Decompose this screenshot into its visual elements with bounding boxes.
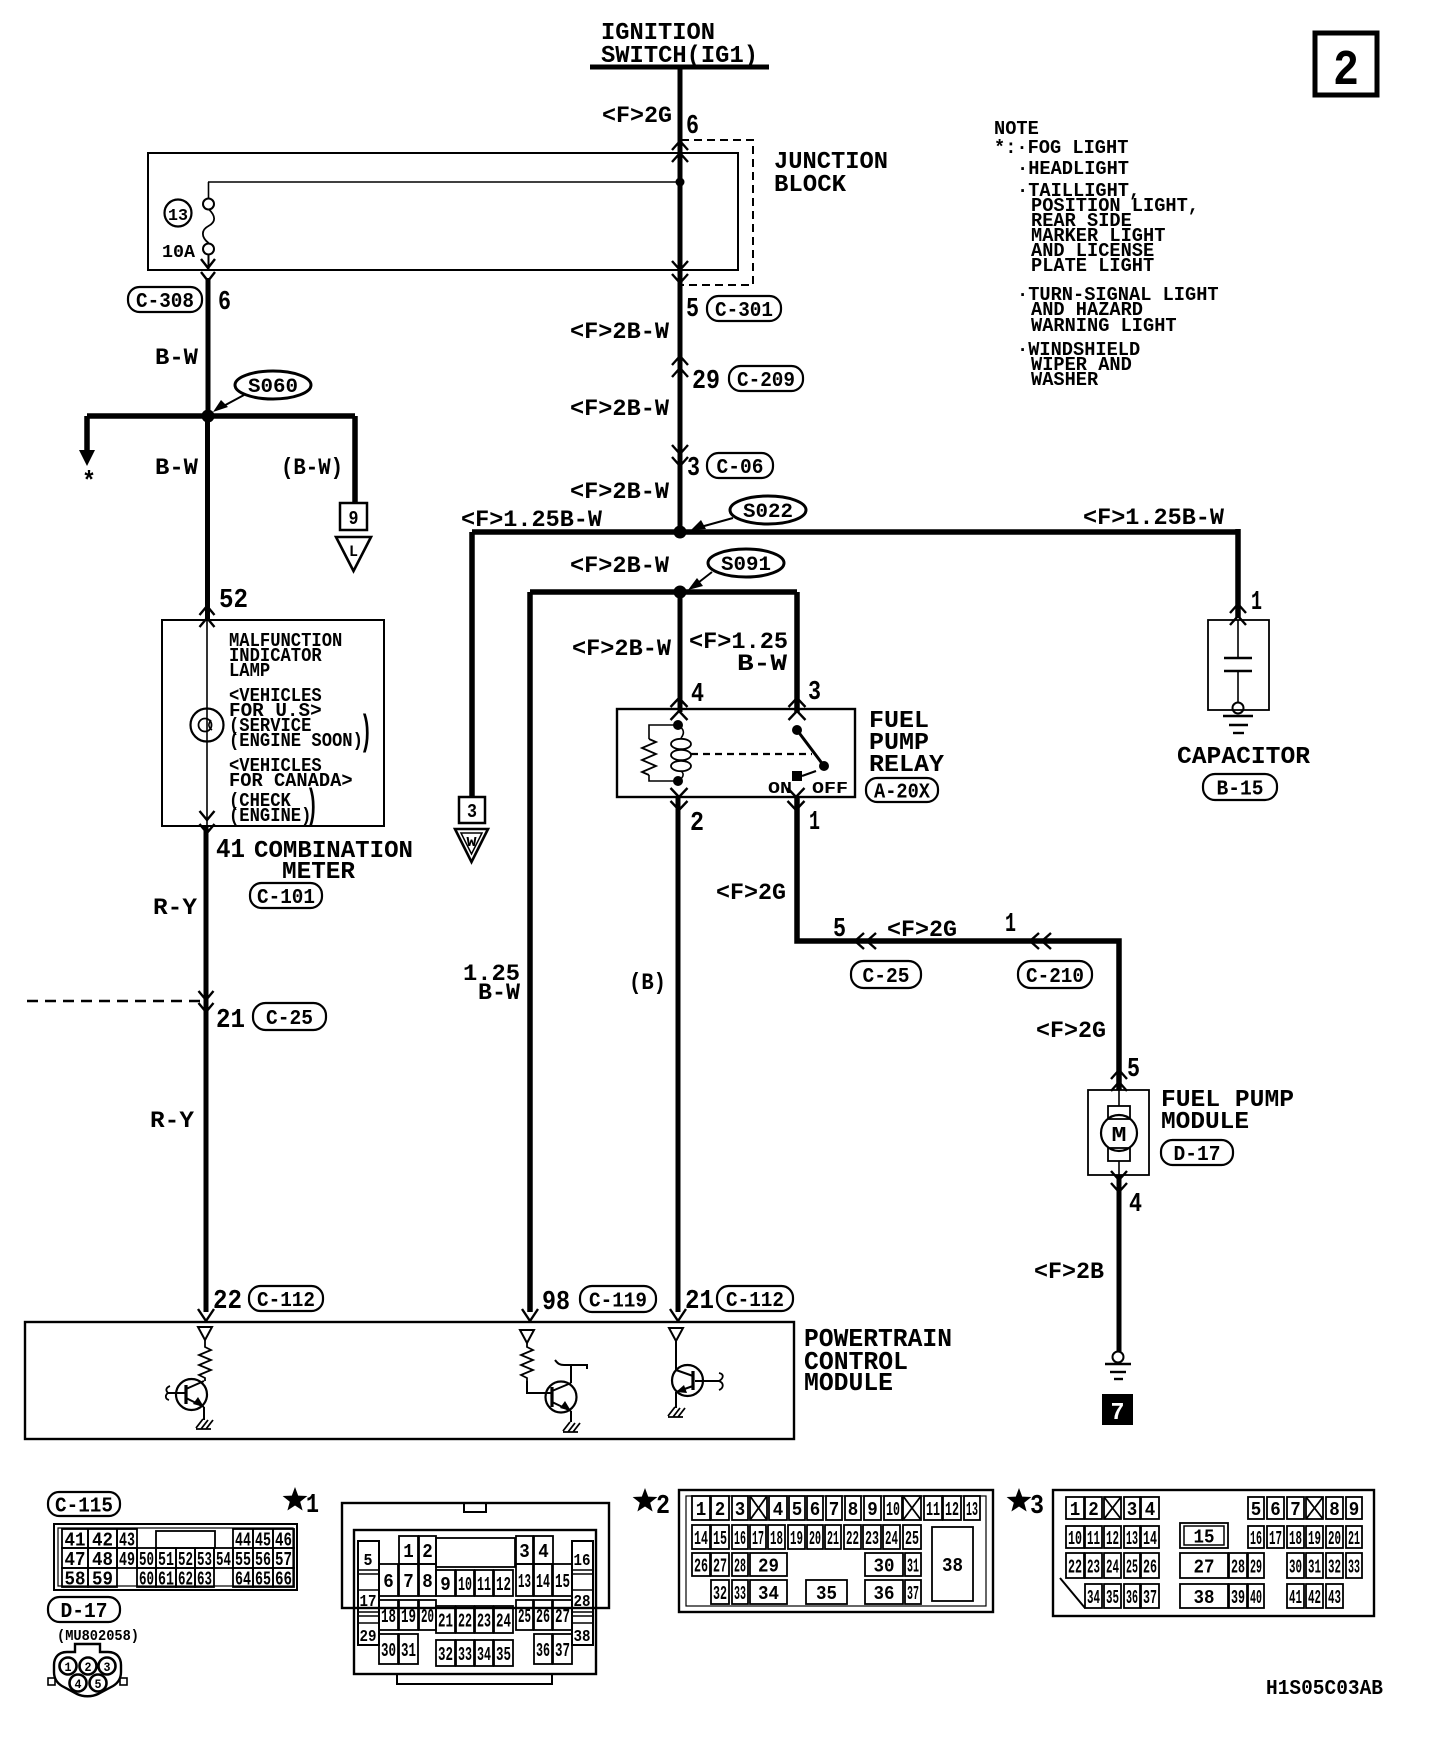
svg-text:59: 59 — [92, 1568, 113, 1590]
svg-text:3: 3 — [735, 1499, 746, 1521]
wire ignition to junction block — [678, 67, 683, 141]
svg-text:30: 30 — [1289, 1556, 1302, 1578]
svg-text:36: 36 — [1126, 1587, 1138, 1609]
fuse 13 circle label — [165, 200, 192, 227]
svg-text:31: 31 — [907, 1555, 919, 1577]
fuel pump relay box — [617, 709, 855, 797]
relay pin1 chevrons — [788, 788, 805, 810]
svg-text:98: 98 — [542, 1288, 570, 1318]
svg-text:16: 16 — [1250, 1528, 1262, 1550]
relay actuation dashed link — [691, 753, 812, 755]
capacitor box — [1208, 620, 1269, 710]
svg-text:10: 10 — [458, 1574, 472, 1596]
svg-text:1: 1 — [403, 1541, 414, 1563]
svg-text:43: 43 — [1328, 1587, 1341, 1609]
svg-text:16: 16 — [574, 1552, 591, 1571]
wire 2 pcm entry — [676, 797, 681, 1312]
connector label D-17 pill — [48, 1597, 120, 1622]
svg-text:24: 24 — [1106, 1556, 1119, 1578]
svg-text:1: 1 — [1070, 1499, 1081, 1521]
svg-text:21: 21 — [438, 1610, 453, 1632]
svg-text:9: 9 — [1349, 1499, 1360, 1521]
page number box 2 — [1315, 33, 1377, 95]
junction block solid box — [148, 153, 738, 270]
splice S060 label — [235, 371, 311, 399]
svg-text:24: 24 — [496, 1610, 511, 1632]
svg-text:22: 22 — [1068, 1556, 1082, 1578]
connector label D-17 — [1161, 1140, 1233, 1165]
svg-text:8: 8 — [422, 1571, 433, 1593]
svg-text:38: 38 — [574, 1628, 591, 1647]
powertrain control module box — [25, 1322, 794, 1439]
svg-text:17: 17 — [360, 1593, 377, 1612]
svg-text:41: 41 — [216, 836, 245, 866]
svg-text:): ) — [360, 709, 372, 757]
svg-text:30: 30 — [381, 1640, 396, 1662]
page reference box 9 — [340, 503, 367, 530]
svg-text:*:·FOG LIGHT: *:·FOG LIGHT — [994, 137, 1128, 159]
relay shunt resistor — [649, 725, 678, 739]
capacitor element — [1237, 620, 1239, 658]
svg-text:31: 31 — [1308, 1556, 1321, 1578]
svg-text:5: 5 — [364, 1552, 373, 1571]
svg-text:40: 40 — [1250, 1587, 1262, 1609]
svg-text:(MU802058): (MU802058) — [57, 1628, 139, 1645]
svg-text:1: 1 — [306, 1491, 319, 1521]
connector label C-115 pill — [48, 1492, 120, 1516]
svg-text:<F>2B-W: <F>2B-W — [570, 319, 669, 345]
svg-text:13: 13 — [1126, 1528, 1138, 1550]
connector label C-301 — [707, 296, 781, 321]
fuel pump module box — [1088, 1090, 1149, 1175]
svg-text:7: 7 — [403, 1571, 414, 1593]
svg-text:10A: 10A — [162, 243, 195, 263]
relay pin4 chevrons — [671, 698, 688, 720]
svg-text:15: 15 — [713, 1528, 727, 1550]
svg-text:19: 19 — [790, 1528, 803, 1550]
capacitor ground — [1233, 703, 1244, 714]
connector label C-119 — [580, 1286, 656, 1312]
svg-text:B-W: B-W — [155, 345, 198, 371]
relay switch pivot — [792, 725, 802, 735]
svg-text:3: 3 — [687, 454, 700, 484]
connector C-210 chevrons — [1030, 933, 1051, 949]
svg-text:65: 65 — [255, 1568, 271, 1590]
svg-text:11: 11 — [1087, 1528, 1100, 1550]
svg-text:C-101: C-101 — [257, 887, 315, 910]
connector label C-101 — [250, 883, 322, 908]
svg-text:2: 2 — [690, 809, 704, 839]
svg-text:8: 8 — [1329, 1499, 1340, 1521]
svg-text:B-15: B-15 — [1217, 779, 1264, 802]
svg-text:5: 5 — [1127, 1055, 1140, 1085]
star2 connector outline — [679, 1490, 993, 1612]
svg-text:21: 21 — [827, 1528, 839, 1550]
svg-text:R-Y: R-Y — [150, 1108, 194, 1134]
svg-text:7: 7 — [829, 1499, 840, 1521]
svg-text:M: M — [1112, 1125, 1127, 1148]
splice S091 arrow — [694, 572, 712, 586]
svg-text:S091: S091 — [721, 554, 771, 577]
svg-text:36: 36 — [874, 1583, 895, 1605]
svg-text:25: 25 — [518, 1606, 531, 1628]
star 2 marker — [633, 1488, 658, 1512]
relay switch off dash — [802, 771, 816, 776]
svg-text:33: 33 — [458, 1644, 472, 1666]
svg-text:21: 21 — [216, 1006, 245, 1036]
star 1 marker — [283, 1487, 308, 1511]
svg-text:28: 28 — [1231, 1556, 1245, 1578]
svg-text:6: 6 — [810, 1499, 821, 1521]
svg-text:25: 25 — [905, 1528, 919, 1550]
fuel pump motor — [1118, 1090, 1120, 1106]
svg-text:D-17: D-17 — [61, 1601, 108, 1624]
svg-text:18: 18 — [1289, 1528, 1302, 1550]
svg-text:64: 64 — [235, 1568, 251, 1590]
svg-text:<F>1.25B-W: <F>1.25B-W — [461, 507, 602, 533]
svg-text:C-112: C-112 — [257, 1290, 315, 1313]
svg-text:(ENGINE SOON): (ENGINE SOON) — [229, 730, 363, 752]
svg-text:24: 24 — [885, 1528, 898, 1550]
connector label C-209 — [729, 366, 803, 391]
malfunction indicator lamp box — [162, 620, 384, 826]
wire 2B fuel pump to ground — [1117, 1175, 1122, 1352]
svg-text:B-W: B-W — [478, 980, 520, 1006]
svg-text:3: 3 — [467, 801, 477, 823]
svg-text:35: 35 — [1106, 1587, 1119, 1609]
relay switch arm end — [819, 761, 829, 771]
svg-text:C-25: C-25 — [266, 1008, 313, 1031]
svg-text:5: 5 — [1251, 1499, 1262, 1521]
svg-text:14: 14 — [1143, 1528, 1157, 1550]
svg-text:13: 13 — [168, 207, 188, 226]
wire 2G relay pin1 to fuel pump — [797, 797, 1119, 1090]
fuel pump pin4 chevrons — [1111, 1171, 1127, 1192]
svg-text:L: L — [349, 543, 358, 561]
svg-text:34: 34 — [477, 1644, 491, 1666]
svg-text:WARNING LIGHT: WARNING LIGHT — [1031, 315, 1177, 337]
wire S060 horizontal — [87, 413, 355, 419]
svg-text:9: 9 — [349, 508, 359, 530]
connector crossing chevrons jb top — [672, 141, 688, 162]
svg-text:2: 2 — [422, 1541, 433, 1563]
junction block dashed extension — [681, 140, 753, 285]
connector label C-25 left — [253, 1003, 326, 1030]
connector C-06 chevrons — [672, 445, 688, 466]
connector C-115 cells — [62, 1529, 88, 1548]
connector label C-308 — [128, 287, 202, 312]
svg-text:3: 3 — [1127, 1499, 1138, 1521]
svg-text:OFF: OFF — [812, 780, 848, 799]
svg-text:5: 5 — [792, 1499, 803, 1521]
connector C-25 left chevrons — [199, 991, 214, 1012]
svg-text:29: 29 — [360, 1628, 377, 1647]
fuse output chevrons — [201, 259, 215, 281]
svg-text:7: 7 — [1111, 1400, 1125, 1427]
svg-text:2: 2 — [1088, 1499, 1099, 1521]
svg-text:4: 4 — [75, 1677, 82, 1692]
junction block inner bus wire — [208, 181, 680, 183]
svg-text:63: 63 — [197, 1568, 212, 1590]
svg-text:(ENGINE): (ENGINE) — [229, 805, 311, 827]
connector C-115 outline — [54, 1524, 297, 1590]
connector label B-15 — [1203, 774, 1277, 800]
svg-text:21: 21 — [1348, 1528, 1360, 1550]
svg-text:32: 32 — [713, 1583, 727, 1605]
svg-text:26: 26 — [536, 1606, 550, 1628]
svg-text:9: 9 — [440, 1574, 451, 1596]
ground triangle W — [455, 829, 488, 862]
svg-text:27: 27 — [1194, 1556, 1215, 1578]
pcm driver transistor Q2 — [520, 1330, 534, 1343]
svg-text:4: 4 — [691, 680, 704, 710]
wire R-Y meter to C-25 — [204, 826, 209, 1312]
svg-text:PLATE LIGHT: PLATE LIGHT — [1031, 255, 1154, 277]
connector label C-210 — [1018, 961, 1092, 988]
svg-text:26: 26 — [694, 1555, 708, 1577]
star 3 marker — [1007, 1488, 1032, 1512]
svg-text:37: 37 — [907, 1583, 919, 1605]
svg-text:9: 9 — [867, 1499, 878, 1521]
pcm entry fork 98 — [522, 1309, 538, 1321]
pcm entry fork 21 — [670, 1309, 686, 1321]
svg-text:C-308: C-308 — [136, 291, 194, 314]
svg-text:16: 16 — [734, 1528, 746, 1550]
svg-text:37: 37 — [1143, 1587, 1157, 1609]
svg-text:54: 54 — [216, 1549, 231, 1571]
splice S022 arrow — [697, 518, 733, 528]
relay coil — [678, 725, 683, 738]
svg-text:33: 33 — [734, 1583, 746, 1605]
svg-text:S060: S060 — [248, 376, 298, 399]
svg-text:17: 17 — [752, 1528, 764, 1550]
svg-text:27: 27 — [555, 1606, 570, 1628]
svg-text:BLOCK: BLOCK — [774, 172, 847, 199]
svg-text:3: 3 — [808, 678, 821, 708]
svg-text:5: 5 — [833, 915, 846, 945]
relay coil bottom node — [673, 776, 683, 786]
svg-text:12: 12 — [496, 1574, 511, 1596]
svg-text:3: 3 — [519, 1541, 530, 1563]
svg-text:2: 2 — [656, 1492, 670, 1522]
wire 1.25B-W splice S091 horizontal — [530, 589, 797, 595]
svg-text:<F>2G: <F>2G — [887, 917, 957, 943]
svg-text:66: 66 — [275, 1568, 292, 1590]
svg-text:H1S05C03AB: H1S05C03AB — [1266, 1678, 1383, 1701]
svg-text:4: 4 — [773, 1499, 784, 1521]
svg-text:D-17: D-17 — [1174, 1144, 1221, 1167]
ignition switch bus bar — [590, 65, 769, 70]
body ground symbol — [1113, 1352, 1124, 1363]
svg-text:19: 19 — [401, 1606, 416, 1628]
wire 1.25B-W splice S022 horizontal — [472, 529, 1238, 535]
svg-text:13: 13 — [966, 1499, 978, 1521]
svg-text:29: 29 — [758, 1555, 779, 1577]
connector C-25 chevrons — [855, 933, 876, 949]
star3 connector cells — [1066, 1497, 1084, 1519]
svg-text:12: 12 — [945, 1499, 959, 1521]
wire B-W S060 to MIL — [205, 416, 210, 620]
svg-text:39: 39 — [1231, 1587, 1245, 1609]
svg-text:28: 28 — [574, 1593, 591, 1612]
svg-text:2: 2 — [1333, 43, 1359, 100]
svg-text:20: 20 — [809, 1528, 821, 1550]
svg-text:CAPACITOR: CAPACITOR — [1177, 744, 1311, 771]
wire through junction block — [678, 141, 683, 285]
svg-text:W: W — [467, 835, 478, 851]
svg-text:38: 38 — [942, 1555, 963, 1577]
relay pin2 chevrons — [671, 788, 688, 810]
svg-text:35: 35 — [496, 1644, 511, 1666]
relay switch arm — [797, 730, 824, 766]
star2 connector cells — [692, 1496, 710, 1520]
svg-text:38: 38 — [1194, 1587, 1215, 1609]
node splice S060 — [202, 410, 215, 423]
svg-text:11: 11 — [477, 1574, 491, 1596]
wire 1.25B-W to PCM 98 — [527, 592, 533, 1312]
svg-text:29: 29 — [1250, 1556, 1262, 1578]
svg-text:35: 35 — [816, 1583, 837, 1605]
relay pin1 square contact — [792, 771, 802, 781]
svg-text:<F>2B-W: <F>2B-W — [570, 396, 669, 422]
node junction block bus — [676, 178, 685, 187]
svg-text:21: 21 — [685, 1287, 714, 1317]
svg-text:20: 20 — [421, 1606, 434, 1628]
svg-text:B-W: B-W — [737, 651, 787, 677]
star1 left ear — [358, 1541, 379, 1645]
svg-text:23: 23 — [477, 1610, 491, 1632]
svg-text:15: 15 — [555, 1571, 570, 1593]
svg-text:(B): (B) — [629, 970, 666, 996]
node splice S091 — [674, 586, 687, 599]
svg-text:31: 31 — [401, 1640, 416, 1662]
connector label A-20X — [866, 778, 938, 802]
svg-text:32: 32 — [438, 1644, 453, 1666]
mil internal wire — [206, 620, 208, 826]
svg-text:20: 20 — [1328, 1528, 1341, 1550]
svg-text:4: 4 — [1129, 1190, 1142, 1220]
svg-text:14: 14 — [536, 1571, 550, 1593]
svg-text:<F>2B: <F>2B — [1034, 1259, 1104, 1285]
svg-text:13: 13 — [518, 1571, 531, 1593]
svg-text:MODULE: MODULE — [1161, 1109, 1249, 1136]
svg-text:34: 34 — [1087, 1587, 1100, 1609]
svg-text:1: 1 — [696, 1499, 707, 1521]
svg-text:12: 12 — [1106, 1528, 1119, 1550]
svg-text:S022: S022 — [743, 501, 793, 524]
svg-text:11: 11 — [926, 1499, 940, 1521]
svg-text:LAMP: LAMP — [229, 660, 270, 682]
svg-text:22: 22 — [213, 1287, 242, 1317]
svg-text:37: 37 — [555, 1640, 570, 1662]
svg-text:18: 18 — [381, 1606, 396, 1628]
svg-text:<F>2G: <F>2G — [716, 880, 786, 906]
svg-text:52: 52 — [219, 586, 248, 616]
svg-text:49: 49 — [119, 1549, 135, 1571]
wire 1.25B-W to capacitor — [1235, 529, 1241, 618]
connector label C-112 a — [249, 1286, 323, 1311]
svg-text:62: 62 — [178, 1568, 193, 1590]
star1 connector outer shell — [342, 1503, 609, 1608]
svg-text:A-20X: A-20X — [874, 782, 930, 805]
connector label C-25 — [851, 961, 921, 988]
page reference box 7 filled — [1102, 1394, 1133, 1425]
svg-text:36: 36 — [536, 1640, 550, 1662]
svg-text:14: 14 — [694, 1528, 708, 1550]
dashed separator line — [27, 1000, 201, 1002]
svg-text:<F>2G: <F>2G — [1036, 1018, 1106, 1044]
svg-text:26: 26 — [1143, 1556, 1157, 1578]
svg-text:6: 6 — [218, 288, 231, 318]
svg-text:23: 23 — [1087, 1556, 1100, 1578]
relay pin3 chevrons — [789, 698, 806, 720]
svg-text:6: 6 — [383, 1571, 394, 1593]
wire 2B-W jb to C-209 — [678, 285, 683, 532]
svg-text:C-301: C-301 — [715, 300, 773, 323]
svg-text:<F>2B-W: <F>2B-W — [570, 479, 669, 505]
svg-text:·HEADLIGHT: ·HEADLIGHT — [1017, 158, 1129, 180]
svg-text:4: 4 — [538, 1541, 549, 1563]
splice S091 label — [708, 549, 784, 577]
svg-text:17: 17 — [1269, 1528, 1282, 1550]
connector label C-06 — [707, 453, 773, 478]
svg-text:22: 22 — [846, 1528, 859, 1550]
wire stub to fog light circuits — [84, 416, 90, 452]
svg-text:(B-W): (B-W) — [281, 455, 343, 481]
svg-text:5: 5 — [95, 1677, 102, 1692]
svg-text:MODULE: MODULE — [804, 1368, 893, 1398]
svg-text:33: 33 — [1348, 1556, 1360, 1578]
star1 connector cells — [399, 1536, 418, 1564]
svg-text:41: 41 — [1289, 1587, 1302, 1609]
pcm driver transistor Q3 — [669, 1328, 683, 1341]
relay coil top node — [673, 720, 683, 730]
svg-text:1: 1 — [1251, 588, 1262, 618]
svg-text:<F>2B-W: <F>2B-W — [572, 636, 671, 662]
ground triangle L — [336, 537, 371, 571]
svg-text:4: 4 — [1145, 1499, 1156, 1521]
connector crossing chevrons jb bottom — [672, 261, 688, 283]
svg-text:C-210: C-210 — [1026, 966, 1084, 989]
mil exit chevrons — [200, 811, 215, 833]
mil entry chevrons — [200, 606, 215, 627]
svg-text:RELAY: RELAY — [869, 752, 945, 779]
svg-text:61: 61 — [158, 1568, 174, 1590]
svg-text:WASHER: WASHER — [1031, 369, 1099, 391]
star3 connector outline — [1053, 1490, 1374, 1616]
svg-text:C-06: C-06 — [717, 457, 764, 480]
splice S022 label — [730, 496, 806, 524]
svg-text:<F>1.25B-W: <F>1.25B-W — [1083, 505, 1224, 531]
star1 connector body — [354, 1530, 596, 1674]
svg-text:58: 58 — [65, 1568, 86, 1590]
pcm entry fork 22 — [198, 1309, 214, 1321]
svg-text:C-119: C-119 — [589, 1291, 647, 1314]
svg-text:1: 1 — [809, 808, 820, 838]
svg-text:3: 3 — [104, 1660, 111, 1675]
svg-text:7: 7 — [1290, 1499, 1301, 1521]
svg-text:C-112: C-112 — [726, 1290, 784, 1313]
svg-text:): ) — [306, 783, 318, 831]
svg-text:<F>2B-W: <F>2B-W — [570, 553, 669, 579]
svg-text:C-115: C-115 — [55, 1496, 113, 1519]
svg-text:5: 5 — [686, 295, 699, 325]
star1 bottom tab — [397, 1674, 552, 1684]
svg-text:30: 30 — [874, 1555, 895, 1577]
svg-text:6: 6 — [1270, 1499, 1281, 1521]
svg-text:2: 2 — [715, 1499, 726, 1521]
svg-text:R-Y: R-Y — [153, 895, 197, 921]
